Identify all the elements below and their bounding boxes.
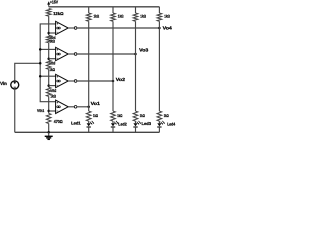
wire ladder seg5 — [48, 124, 50, 133]
svg-text:1kΩ: 1kΩ — [94, 14, 100, 19]
resistor pullup 1k column 2 — [111, 13, 124, 21]
svg-text:1kΩ: 1kΩ — [117, 113, 123, 118]
LED D2 — [111, 121, 119, 132]
node Vth3 — [47, 57, 55, 65]
wire ladder to op-amp U4 inverting input — [49, 32, 56, 34]
resistor pullup 1k column 3 — [133, 13, 146, 21]
op-amp U2 comparator — [56, 74, 69, 87]
svg-text:+15V: +15V — [50, 0, 58, 5]
node output bubble U1 — [68, 106, 77, 109]
op-amp U3 comparator — [56, 47, 69, 60]
wire output Vo2 to column — [77, 80, 114, 83]
wire Vin to bus — [15, 62, 42, 81]
op-amp U4 comparator — [56, 21, 69, 34]
wire ladder to op-amp U1 inverting input — [49, 110, 56, 112]
svg-text:Vin: Vin — [0, 81, 7, 86]
resistor series 1k LED 3 — [133, 111, 145, 121]
wire ladder seg4 — [48, 96, 50, 113]
wire output Vo1 to column — [77, 106, 90, 109]
svg-text:Led1: Led1 — [71, 120, 81, 125]
wire bus tap A2 — [39, 75, 56, 78]
resistor series 1k LED 2 — [111, 111, 123, 121]
wire +15V top rail — [49, 6, 160, 8]
svg-text:Led2: Led2 — [118, 122, 127, 127]
resistor R1 12k ladder top — [46, 9, 64, 17]
node Vth2 — [47, 84, 56, 93]
resistor R2 1k — [46, 35, 55, 44]
wire column 2 — [112, 7, 114, 111]
wire output Vo3 to column — [77, 53, 137, 56]
svg-text:Vth2: Vth2 — [50, 88, 56, 93]
resistor R4 1k — [46, 87, 56, 98]
resistor series 1k LED 1 — [86, 111, 98, 121]
svg-text:1kΩ: 1kΩ — [49, 39, 55, 44]
svg-text:470Ω: 470Ω — [54, 119, 63, 124]
svg-text:1kΩ: 1kΩ — [140, 14, 146, 19]
svg-text:Vo3: Vo3 — [139, 47, 149, 52]
wire ladder seg1 — [48, 16, 50, 35]
wire column 4 — [158, 7, 160, 111]
node output bubble U2 — [68, 80, 77, 83]
wire ground rail — [15, 131, 160, 133]
svg-text:1kΩ: 1kΩ — [140, 113, 146, 118]
wire bus tap A3 — [39, 48, 56, 51]
wire output Vo4 to column — [77, 27, 161, 30]
svg-text:1kΩ: 1kΩ — [93, 113, 99, 118]
svg-text:1kΩ: 1kΩ — [164, 113, 170, 118]
LED D4 — [157, 121, 165, 132]
resistor series 1k LED 4 — [157, 111, 169, 121]
node Vth1 — [37, 108, 50, 113]
wire ladder seg3 — [48, 69, 50, 87]
resistor pullup 1k column 1 — [86, 13, 99, 21]
svg-text:Vth1: Vth1 — [37, 108, 45, 113]
source Vin — [0, 81, 19, 89]
svg-text:12kΩ: 12kΩ — [53, 11, 64, 16]
wire ladder to op-amp U3 inverting input — [49, 58, 56, 60]
wire column 1 — [88, 7, 90, 111]
op-amp U1 comparator — [56, 100, 69, 113]
resistor pullup 1k column 4 — [157, 13, 170, 21]
ground — [45, 131, 53, 139]
wire column 3 — [135, 7, 137, 111]
svg-text:Vo2: Vo2 — [116, 77, 126, 82]
svg-text:1kΩ: 1kΩ — [118, 14, 124, 19]
node output bubble U4 — [68, 27, 77, 30]
svg-text:1kΩ: 1kΩ — [50, 93, 56, 98]
svg-text:Vo1: Vo1 — [91, 101, 101, 106]
wire Vin bus — [40, 24, 55, 102]
node output bubble U3 — [68, 53, 77, 56]
wire Vin to ground rail — [14, 89, 16, 132]
resistor R3 1k — [46, 60, 55, 72]
LED D1 — [87, 121, 95, 132]
svg-text:Vo4: Vo4 — [163, 25, 173, 30]
svg-text:Led3: Led3 — [142, 121, 152, 126]
power +15V supply arrow — [47, 0, 58, 7]
node Vth4 — [47, 32, 56, 40]
LED D3 — [133, 121, 141, 132]
wire ladder seg2 — [48, 43, 50, 60]
resistor R5 470 — [46, 113, 63, 124]
wire ladder to op-amp U2 inverting input — [49, 85, 56, 87]
svg-text:1kΩ: 1kΩ — [164, 14, 170, 19]
svg-text:Led4: Led4 — [167, 121, 176, 126]
svg-text:1kΩ: 1kΩ — [49, 67, 55, 72]
